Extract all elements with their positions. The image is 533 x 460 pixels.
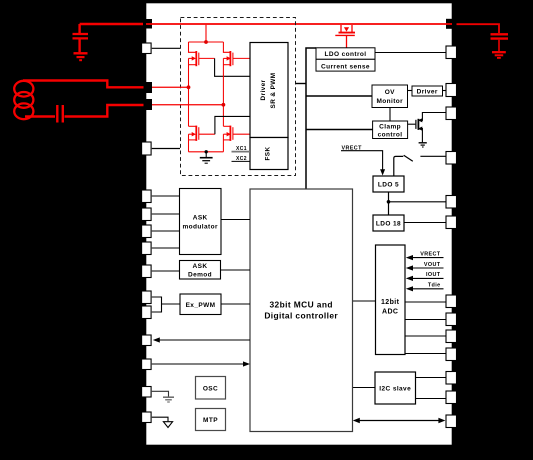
wire MCU to ADC	[353, 300, 376, 302]
pin AGND (left, white)	[142, 412, 152, 423]
pin PWM1 (left, white)	[142, 291, 152, 304]
pin COM4 (left, white)	[142, 242, 152, 255]
block Driver SR & PWM	[250, 43, 288, 138]
wire C2 to AC2 pin	[65, 105, 144, 117]
wire M1 source rail down to AC1	[188, 58, 190, 126]
svg-text:ASK: ASK	[193, 263, 208, 270]
svg-text:XC2: XC2	[236, 156, 247, 162]
wire LDO5 to LDO18	[388, 192, 390, 215]
wire VRECT rail across chip	[146, 23, 452, 25]
svg-text:VOUT: VOUT	[424, 262, 441, 268]
block LDO 18	[373, 215, 404, 231]
pin VRECT (right, black)	[446, 19, 457, 29]
capacitor C1 plates	[73, 34, 89, 38]
switch S1 blade	[404, 155, 413, 161]
wire dashed box to bus	[296, 83, 307, 85]
transistor M2 (high-side right)	[223, 42, 233, 66]
arrowhead into LDO5	[380, 169, 385, 175]
wire ASK mod in 4	[152, 247, 180, 249]
svg-text:SR & PWM: SR & PWM	[270, 73, 277, 109]
svg-text:Ex_PWM: Ex_PWM	[186, 302, 216, 309]
wire XC2 into FSK	[232, 160, 251, 162]
switch S1 right contact wire to pin	[420, 155, 446, 157]
svg-text:control: control	[378, 132, 403, 139]
node bridge top junction	[204, 40, 208, 44]
wire OV Monitor to Clamp control	[389, 108, 391, 122]
block Driver (OV gate driver)	[412, 86, 443, 96]
transistor M1 (high-side left)	[189, 42, 215, 66]
capacitor C1 (left bulk cap) lead	[78, 24, 80, 33]
inductor L1 (receiver coil)	[14, 81, 33, 119]
svg-text:Digital controller: Digital controller	[264, 311, 338, 321]
pin COM3 (left, white)	[142, 225, 152, 238]
transistor M2 arrow	[227, 56, 231, 60]
svg-text:LDO 5: LDO 5	[378, 182, 399, 189]
ground G4 (under clamp FET)	[419, 143, 427, 147]
wire bus to OV Monitor	[306, 95, 372, 97]
pin LDO sense (right, white)	[446, 46, 457, 59]
svg-text:MTP: MTP	[203, 417, 218, 424]
svg-text:Driver: Driver	[417, 89, 438, 96]
ground G5 (earth, gray)	[163, 397, 174, 402]
chip body U1	[146, 3, 453, 446]
block LDO 5	[373, 176, 404, 192]
wire BST2 stub	[152, 148, 180, 150]
transistor M4 (low-side right)	[223, 126, 233, 141]
block ASK modulator	[180, 189, 222, 255]
svg-text:Driver: Driver	[260, 79, 267, 100]
wire M1 gate black elbow to Driver	[215, 58, 250, 76]
block Current sense	[316, 59, 375, 71]
svg-text:OSC: OSC	[203, 385, 218, 392]
dashed box (power stage boundary)	[181, 18, 296, 176]
pin PWM2 (left, white)	[142, 306, 152, 319]
transistor M4 arrow	[227, 132, 231, 136]
wire ASK mod in 3	[152, 230, 180, 232]
block I2C slave	[375, 372, 416, 404]
wire L1 top terminal to AC1	[23, 81, 144, 88]
svg-text:Tdie: Tdie	[428, 283, 441, 289]
block 12bit ADC	[376, 245, 406, 355]
svg-text:FSK: FSK	[265, 147, 272, 161]
svg-text:12bit: 12bit	[381, 299, 400, 306]
svg-text:modulator: modulator	[183, 224, 218, 231]
wire ADC out 1	[405, 301, 446, 303]
wire LDO control to sense pin	[375, 52, 446, 54]
pin BST2 (left, white)	[142, 142, 152, 155]
ground G6 (signal ground triangle)	[163, 422, 172, 428]
wire bus to Clamp control	[306, 129, 373, 131]
wire ADC input VOUT	[412, 267, 444, 269]
pin SCL (right, white)	[446, 391, 457, 404]
wire Ex_PWM to MCU	[221, 303, 250, 305]
pin AC1 (left, black)	[144, 82, 153, 93]
block OV Monitor	[372, 85, 408, 108]
transistor Q5 (LDO pass FET on rail)	[335, 25, 355, 35]
wire bidirectional GPIO double arrow	[357, 420, 442, 422]
capacitor C3 (right bulk cap) plates	[491, 34, 509, 38]
wire AC1 into bridge	[152, 86, 189, 88]
transistor M1 arrow	[192, 56, 196, 60]
capacitor C3 bottom lead	[498, 40, 500, 51]
pin GPIO bidir (right, white)	[446, 415, 457, 428]
wire VRECT rail left external	[80, 23, 146, 26]
svg-text:ADC: ADC	[382, 309, 398, 316]
wire OV Monitor to Driver	[408, 90, 413, 92]
wire AC2 into bridge	[152, 104, 223, 106]
node LDO5 output junction	[387, 200, 391, 204]
pin GPIO out (left, white)	[142, 335, 152, 346]
wire PWM pin bracket top	[152, 297, 162, 304]
wire M2 gate to Driver	[233, 57, 250, 59]
pin SDA (right, white)	[446, 372, 457, 385]
wire M4 gate to Driver	[233, 133, 250, 135]
pin CLAMP (right, white)	[446, 107, 457, 120]
node AC2 junction	[222, 103, 226, 107]
ground G1 (red earth under C1)	[74, 53, 88, 60]
wire L1 bottom terminal	[25, 115, 55, 117]
pin VRECT (left, black)	[143, 19, 152, 29]
svg-text:Current sense: Current sense	[321, 63, 370, 70]
pin LDO18 out (right, white)	[446, 216, 457, 229]
pin OV drive (right, white)	[446, 84, 457, 97]
transistor Q6 arrows	[418, 118, 422, 122]
wire M3 gate black elbow to Driver	[215, 116, 250, 134]
wire ADC input Tdie	[412, 288, 444, 290]
wire AGND pin to signal ground	[152, 417, 168, 421]
wire I2C out SDA	[416, 377, 447, 379]
transistor M3 (low-side left)	[189, 126, 215, 141]
block OSC	[196, 377, 226, 400]
pin COM2 (left, white)	[142, 208, 152, 221]
pin LDO5 out (right, white)	[446, 196, 457, 209]
svg-text:XC1: XC1	[236, 146, 247, 152]
wire VRECT label underline and arrow to LDO5	[341, 151, 383, 171]
pin AC2 (left, black)	[144, 99, 153, 110]
wire VRECT rail right external	[452, 24, 499, 33]
wire ADC input VRECT	[412, 257, 444, 259]
pin GPIO in (left, white)	[142, 359, 152, 370]
wire demod to MCU	[221, 269, 251, 271]
wire ASK mod in 1	[152, 195, 180, 197]
wire ASK mod to MCU	[221, 219, 250, 221]
wire M3 source rail to ground rail	[188, 134, 190, 152]
svg-text:Monitor: Monitor	[376, 98, 403, 105]
wire demod in	[152, 270, 180, 272]
capacitor C1 bottom lead	[78, 40, 80, 53]
svg-text:I2C slave: I2C slave	[379, 386, 411, 393]
wire rail drop to bridge	[205, 25, 207, 42]
wire XC1 into FSK	[232, 151, 251, 153]
ground G3 (bridge ground)	[200, 152, 213, 163]
wire ADC input IOUT	[412, 277, 444, 279]
transistor Q6 (clamp FET)	[416, 113, 446, 143]
wire Clamp control to Q6 gate	[408, 123, 416, 125]
svg-text:Demod: Demod	[188, 272, 212, 279]
wire ASK mod in 2	[152, 213, 180, 215]
block ASK Demod	[180, 261, 221, 280]
svg-text:VRECT: VRECT	[420, 251, 441, 257]
block 32bit MCU	[250, 189, 353, 432]
wire M4 source rail	[222, 134, 224, 152]
wire bracket to Ex_PWM	[162, 303, 181, 305]
wire LDO5 to switch	[394, 156, 404, 176]
wire bridge ground rail	[189, 151, 224, 153]
svg-text:32bit MCU and: 32bit MCU and	[270, 300, 333, 310]
wire GPIO in to MCU (arrow right)	[152, 363, 247, 365]
wire VRECT bus vertical	[306, 48, 316, 189]
block FSK	[250, 138, 288, 170]
svg-text:LDO control: LDO control	[325, 51, 367, 58]
wire ADC out 3	[405, 335, 446, 337]
wire MCU to I2C	[353, 387, 376, 389]
pin BST1 (left, white)	[142, 43, 152, 54]
svg-text:Clamp: Clamp	[379, 124, 401, 131]
wire PGND pin to ground	[152, 391, 169, 396]
wire ADC out 4	[405, 353, 446, 355]
wire BST1 stub	[152, 47, 180, 49]
transistor Q5 arrow	[344, 27, 349, 31]
wire I2C out SCL	[416, 398, 447, 400]
pin DEMOD (left, white)	[142, 265, 152, 278]
node bridge ground junction	[205, 150, 208, 153]
capacitor C2 (series resonant cap) plates	[57, 105, 63, 123]
svg-text:IOUT: IOUT	[426, 272, 441, 278]
wire LDO18 output to pin	[404, 222, 446, 224]
block MTP	[196, 409, 226, 431]
transistor M3 arrow	[192, 132, 196, 136]
block Ex_PWM	[180, 294, 221, 315]
wire PWM pin bracket bottom	[152, 304, 162, 312]
svg-text:OV: OV	[385, 89, 395, 96]
pin ADC1 (right, white)	[446, 295, 457, 308]
ground G2 (red earth under C3)	[492, 52, 506, 58]
wire Driver to pin	[443, 90, 447, 92]
wire LDO5 output to pin	[389, 201, 447, 203]
wire bridge top node	[189, 41, 224, 43]
wire Q5 gate to LDO control	[346, 36, 348, 48]
pin SW (right, white)	[446, 152, 457, 165]
wire ADC out 2	[405, 319, 446, 321]
svg-text:ASK: ASK	[193, 215, 208, 222]
wire MCU to GPIO out (arrow left)	[157, 339, 251, 341]
node AC1 junction	[187, 85, 191, 89]
pin ADC3 (right, white)	[446, 330, 457, 343]
svg-text:LDO 18: LDO 18	[376, 221, 401, 228]
pin COM1 (left, white)	[142, 190, 152, 203]
pin PGND (left, white)	[142, 387, 152, 398]
pin ADC2 (right, white)	[446, 313, 457, 326]
block LDO control	[316, 48, 375, 60]
wire M2 source rail down to AC2	[222, 58, 224, 126]
pin ADC4 (right, white)	[446, 348, 457, 361]
block Clamp control	[373, 121, 408, 139]
